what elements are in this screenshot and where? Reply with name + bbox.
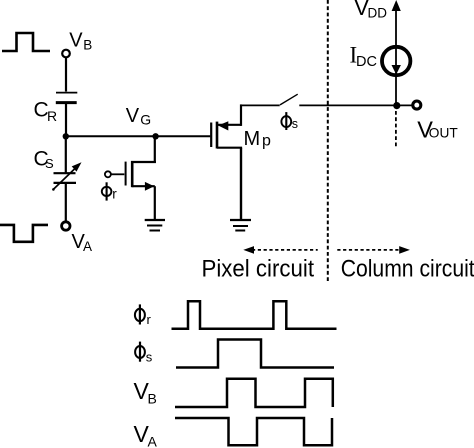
svg-text:A: A xyxy=(83,239,92,254)
svg-text:Column circuit: Column circuit xyxy=(341,255,474,282)
svg-text:p: p xyxy=(262,133,271,150)
svg-text:V: V xyxy=(126,105,140,127)
svg-text:DD: DD xyxy=(368,6,388,21)
svg-text:r: r xyxy=(112,186,117,201)
svg-text:OUT: OUT xyxy=(429,126,459,141)
svg-text:r: r xyxy=(147,312,152,327)
svg-text:G: G xyxy=(140,112,151,128)
svg-text:DC: DC xyxy=(356,54,377,70)
svg-text:s: s xyxy=(292,117,298,131)
svg-text:M: M xyxy=(244,128,261,150)
svg-text:B: B xyxy=(83,37,92,52)
svg-text:V: V xyxy=(69,29,83,51)
svg-text:B: B xyxy=(148,391,157,407)
svg-text:R: R xyxy=(47,108,57,124)
svg-text:s: s xyxy=(146,350,153,365)
svg-text:S: S xyxy=(45,156,54,171)
svg-text:Pixel circuit: Pixel circuit xyxy=(202,255,315,282)
svg-text:A: A xyxy=(148,434,158,448)
